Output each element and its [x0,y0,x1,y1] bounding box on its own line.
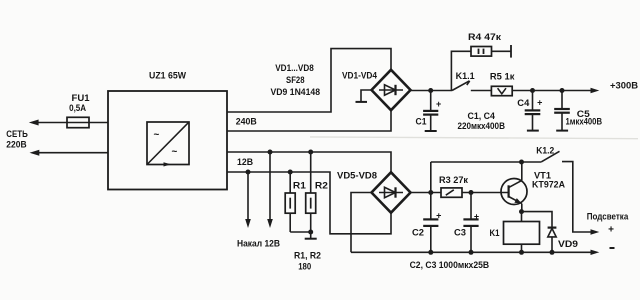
svg-text:K1.1: K1.1 [456,71,476,82]
svg-text:180: 180 [298,262,311,273]
capacitor C2 [430,193,432,220]
svg-text:12В: 12В [237,157,253,168]
node heater tap 1 [246,170,251,175]
relay coil K1 [521,212,523,222]
wire main +300V rail left [411,90,453,92]
capacitor C4 [532,91,534,111]
arrow backlight minus [591,250,600,255]
svg-text:K1.2: K1.2 [536,146,554,157]
svg-text:Подсветка: Подсветка [587,212,629,223]
wire +300V rail right [512,90,590,92]
UZ1 inner square [147,122,189,165]
svg-text:C2, C3 1000мкх25В: C2, C3 1000мкх25В [410,260,490,271]
ground at bridge 1 [361,90,372,102]
svg-text:UZ1 65W: UZ1 65W [149,71,186,82]
svg-text:K1: K1 [490,228,501,239]
svg-text:+: + [474,212,479,222]
node C2 rail [428,250,433,255]
contact K1.1 [452,81,470,91]
resistor R4 [451,51,471,90]
label minus [610,247,615,249]
node C3 rail [469,250,474,255]
resistor R1 [289,172,291,193]
svg-text:R4 47к: R4 47к [468,32,501,43]
wire K1.1 to R5 [471,90,492,92]
node R2 top [308,150,313,155]
node C1 junction [428,88,433,93]
svg-text:СЕТЬ: СЕТЬ [6,129,28,140]
wire R1 R2 bottoms [290,231,311,233]
svg-text:VD9 1N4148: VD9 1N4148 [271,87,321,98]
svg-text:C4: C4 [517,98,530,109]
wire riser to top [430,162,432,193]
svg-text:+300В: +300В [610,80,638,91]
wire 12V line A [227,152,391,172]
svg-text:+: + [436,99,441,109]
node C5 [560,88,565,93]
UZ1 diagonal [147,122,189,165]
wire 240V bottom [227,110,391,131]
wire minus rail [351,251,591,253]
node VD9 rail [550,250,555,255]
arrow mains 2 [30,150,40,156]
wire bridge2 minus to rail [351,193,372,253]
svg-text:220В: 220В [6,140,26,151]
arrow +300V [591,88,600,93]
node K1 rail [519,250,524,255]
wire 240V top [227,49,391,112]
node R1R2 join [308,230,313,235]
svg-text:R2: R2 [315,180,328,191]
svg-text:VD1-VD4: VD1-VD4 [342,71,378,82]
capacitor C1 [430,91,432,111]
svg-text:KT972A: KT972A [532,180,565,191]
UZ1 small arrow [164,162,172,166]
bridge VD1-VD4 diamond [372,70,411,110]
node collector junction [519,160,524,165]
wire heater 1 [247,172,249,220]
resistor R5 [491,86,512,95]
scan streak artifact [310,137,638,139]
node emitter junction [519,209,524,214]
svg-text:0,5A: 0,5A [69,103,86,114]
wire mains line 1 [36,122,108,124]
svg-text:VD9: VD9 [558,239,578,250]
svg-text:VD5-VD8: VD5-VD8 [337,170,377,181]
svg-text:C2: C2 [412,228,424,239]
capacitor C5 [561,91,563,110]
svg-text:SF28: SF28 [286,75,305,86]
resistor R3 [441,188,462,197]
svg-text:~: ~ [154,130,160,141]
wire 12V line B [227,172,391,234]
wire emitter to VD9 [522,212,553,228]
svg-text:R5 1к: R5 1к [490,72,515,83]
ground R1R2 [310,232,312,238]
node riser junction [428,190,433,195]
wire heater 2 [269,152,271,220]
wire mains line 2 [37,152,108,154]
converter UZ1 box [108,91,227,190]
arrow mains 1 [29,120,39,126]
svg-text:VD1...VD8: VD1...VD8 [275,63,314,74]
diode VD9 [548,227,557,229]
svg-text:C3: C3 [454,228,466,239]
fuse FU1 [67,117,89,127]
node R1 top [288,170,293,175]
transistor VT1 [501,179,527,205]
wire R3 to base [462,192,508,194]
node C4 [530,88,535,93]
svg-text:Накал 12В: Накал 12В [237,239,280,250]
svg-text:R3 27к: R3 27к [439,175,468,186]
node C3 junction [469,190,474,195]
svg-text:~: ~ [172,147,178,158]
svg-text:240В: 240В [236,117,257,128]
wire top y162 [431,161,542,163]
svg-text:R1: R1 [293,180,307,191]
svg-text:R1, R2: R1, R2 [294,251,321,262]
node heater tap 2 [268,150,273,155]
svg-text:+: + [436,211,441,221]
capacitor C3 [470,193,472,220]
svg-text:+: + [537,97,542,107]
svg-text:C1: C1 [416,116,428,127]
wire bridge2 plus [411,192,442,194]
bridge VD5-VD8 diamond [372,172,411,212]
svg-text:+: + [608,225,614,236]
resistor R2 [310,152,312,193]
bridge VD1-VD4 diode [379,89,403,91]
contact K1.2 [541,151,559,162]
arrow backlight plus [591,229,600,234]
svg-text:220мкх400В: 220мкх400В [457,121,505,132]
svg-text:1мкх400В: 1мкх400В [566,116,603,127]
bridge VD5-VD8 diode [379,192,403,194]
